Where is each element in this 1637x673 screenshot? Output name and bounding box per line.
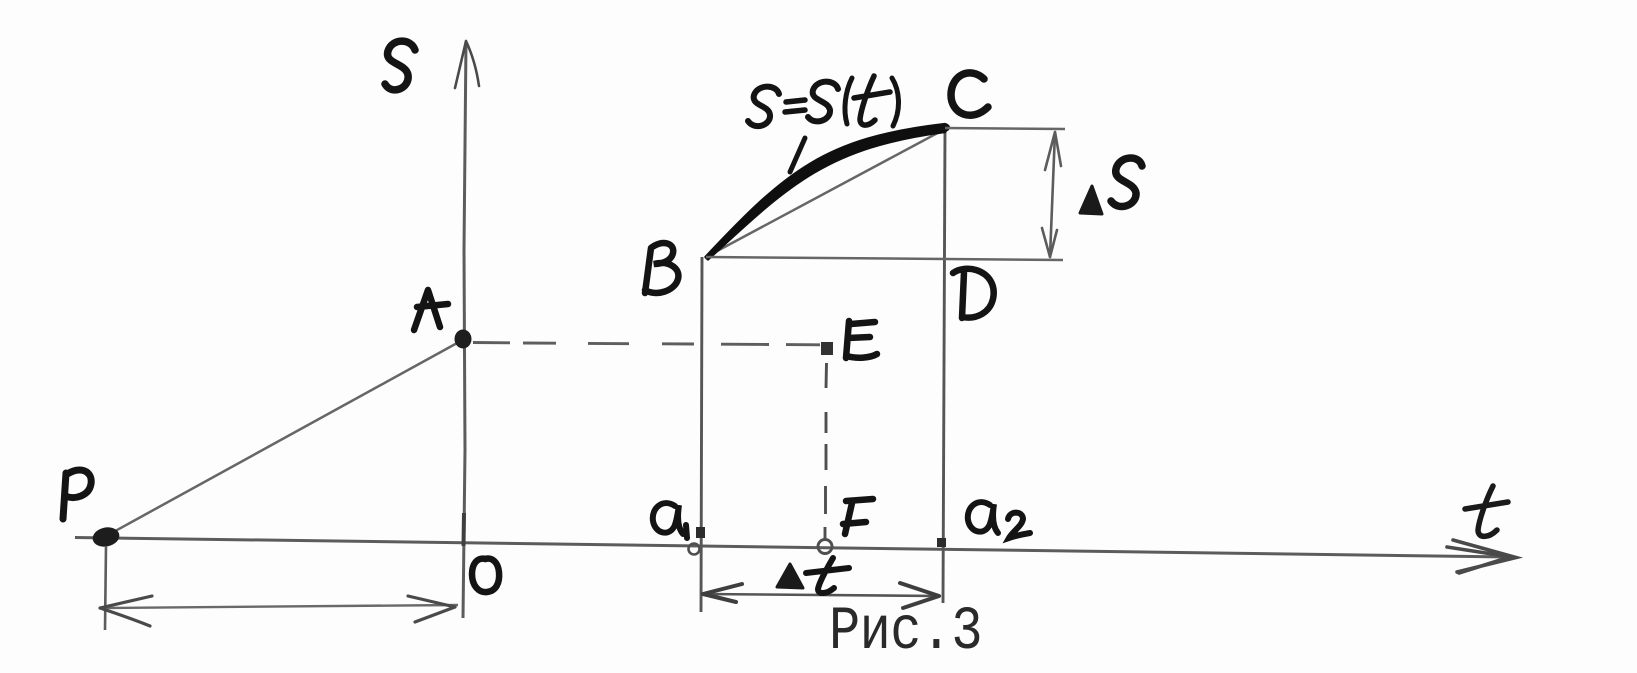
label D [953,269,994,318]
point P blob [91,525,121,549]
label A [414,290,448,330]
P tick below axis [105,546,106,630]
label delta t [777,564,803,588]
delta t double arrow [703,594,939,596]
line P to A [108,342,459,535]
label C [951,73,988,115]
dashed line E to F [825,363,827,539]
dark blob at a2 on axis [937,538,946,547]
label t (axis) [1465,486,1508,536]
label a2 [968,502,1030,538]
label S (axis) [385,41,415,90]
label F [843,499,873,534]
vertical line a1 to B [701,257,702,612]
label P [63,470,91,519]
t axis [75,538,1510,558]
label O [472,559,499,593]
P-O double arrow [100,605,458,608]
label a1 [653,503,687,538]
label E [846,321,877,358]
pointer tick from label to curve [790,138,805,172]
thick curve S=S(t) from B to C [706,125,945,260]
t axis arrowhead [1447,540,1516,573]
svg-text:Рис.3: Рис.3 [829,598,982,667]
open circle at a1 [689,544,700,555]
chord line B to C [706,129,945,257]
S axis arrowhead [455,41,479,88]
label B [645,243,678,293]
knot at C [939,123,950,132]
delta S double arrow [1050,132,1055,257]
point A dot [455,330,472,349]
dashed line A to E [473,343,820,345]
vertical line C to a2 [943,129,945,603]
horizontal line C extended right [945,128,1065,129]
S axis [463,41,466,618]
label delta S [1080,186,1102,214]
open circle at F [818,540,832,554]
horizontal line B to D extended [706,257,1063,260]
point E square dot [821,342,833,355]
dark blob at a1 [696,527,705,538]
label S=S(t) [748,87,779,127]
